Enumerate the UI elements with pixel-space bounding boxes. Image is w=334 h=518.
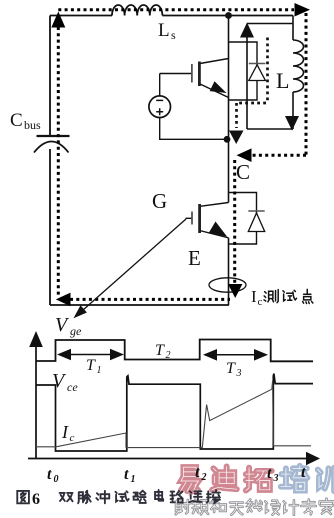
svg-text:L: L xyxy=(158,20,170,41)
svg-text:T: T xyxy=(86,357,96,374)
svg-text:c: c xyxy=(70,432,75,444)
svg-text:ce: ce xyxy=(67,380,78,394)
diode D1 branch rectangle xyxy=(229,42,258,100)
label Ic xyxy=(61,422,75,444)
waveform time axis xyxy=(28,458,307,460)
wire: left bus vertical (lower) xyxy=(49,149,51,305)
label Vce xyxy=(52,370,78,394)
label t0 xyxy=(47,466,59,485)
svg-text:c: c xyxy=(258,296,263,308)
svg-text:C: C xyxy=(236,160,250,184)
wire: L branch stub from rail xyxy=(292,16,294,24)
wire: left bus vertical (upper) xyxy=(49,16,51,137)
svg-text:3: 3 xyxy=(273,473,279,484)
svg-text:ge: ge xyxy=(70,324,82,338)
svg-text:1: 1 xyxy=(131,474,136,485)
waveform Vge trace xyxy=(36,340,313,362)
svg-text:I: I xyxy=(61,422,69,442)
svg-text:I: I xyxy=(251,287,257,306)
label t1 xyxy=(124,466,136,485)
svg-text:2: 2 xyxy=(166,350,171,361)
transistor Q1 (upper IGBT) xyxy=(160,59,229,98)
svg-text:t: t xyxy=(47,466,52,483)
capacitor Cbus xyxy=(34,136,70,153)
svg-text:E: E xyxy=(188,246,201,270)
diode D1 xyxy=(249,64,266,81)
svg-text:C: C xyxy=(10,110,23,131)
wire: main current loop dashed, left vertical xyxy=(57,27,60,297)
wire: main loop dashed, mid horizontal into node C xyxy=(251,154,306,157)
annotation T2 xyxy=(155,342,171,361)
wire: main loop dashed, mid vertical through Q2 xyxy=(233,160,236,283)
svg-text:6: 6 xyxy=(32,491,40,508)
current probe ellipse (Ic test point) xyxy=(209,278,246,292)
wire: main loop dashed, top horizontal xyxy=(58,8,294,11)
label Vge xyxy=(55,314,82,338)
diode D2 xyxy=(248,211,264,232)
wire: freewheel box left edge (current arrow up) xyxy=(246,30,248,129)
wire: top rail left of Ls xyxy=(50,15,112,17)
node: Q1 emitter junction xyxy=(224,136,231,143)
svg-text:L: L xyxy=(276,68,289,93)
svg-text:s: s xyxy=(171,28,176,42)
wire: main loop dashed, right vertical xyxy=(305,13,308,155)
watermark red: Yidiatuo Peixun xyxy=(181,466,334,492)
svg-text:t: t xyxy=(301,464,306,481)
waveform y-axis xyxy=(35,346,37,459)
gate drive source V1 xyxy=(149,74,227,140)
label t2 xyxy=(195,464,207,483)
node: junction top rail / Q1 collector xyxy=(225,12,232,19)
svg-text:2: 2 xyxy=(201,472,207,483)
label Ls xyxy=(158,20,176,42)
wire: Q1 branch vertical xyxy=(228,16,230,140)
caption: figure 6 double pulse test circuit connection xyxy=(17,490,220,508)
annotation arrow: gate G to Vge label xyxy=(74,219,187,318)
watermark gray: RF and antenna design experts xyxy=(176,499,334,515)
transistor Q2 (DUT IGBT) xyxy=(186,139,229,305)
waveform Vce trace xyxy=(36,374,313,451)
annotation T1 double arrow xyxy=(57,349,124,376)
svg-text:t: t xyxy=(267,465,272,482)
svg-text:t: t xyxy=(124,466,129,483)
wire: freewheel loop dashed (diode recovery path) xyxy=(229,38,268,145)
wire: bottom return xyxy=(50,304,229,306)
svg-text:1: 1 xyxy=(97,365,102,376)
label Cbus xyxy=(10,110,41,132)
svg-text:t: t xyxy=(195,464,200,481)
label Ic test point xyxy=(251,287,313,308)
inductor L xyxy=(293,24,304,130)
wire: freewheel box bottom edge (current arrow down) xyxy=(247,128,293,130)
label t3 xyxy=(267,465,279,484)
svg-text:3: 3 xyxy=(236,368,242,379)
inductor Ls xyxy=(112,5,162,16)
diode D2 branch rectangle xyxy=(229,193,257,245)
svg-text:bus: bus xyxy=(24,118,41,132)
svg-text:0: 0 xyxy=(54,474,59,485)
wire: top rail right of Ls xyxy=(162,15,293,17)
svg-text:G: G xyxy=(152,189,167,213)
svg-text:T: T xyxy=(226,360,236,377)
annotation T3 double arrow xyxy=(203,349,268,379)
wire: main loop dashed, bottom horizontal xyxy=(70,298,230,301)
waveform Ic trace xyxy=(36,381,311,448)
svg-text:T: T xyxy=(155,342,165,359)
wire: freewheel box top edge xyxy=(247,23,293,25)
